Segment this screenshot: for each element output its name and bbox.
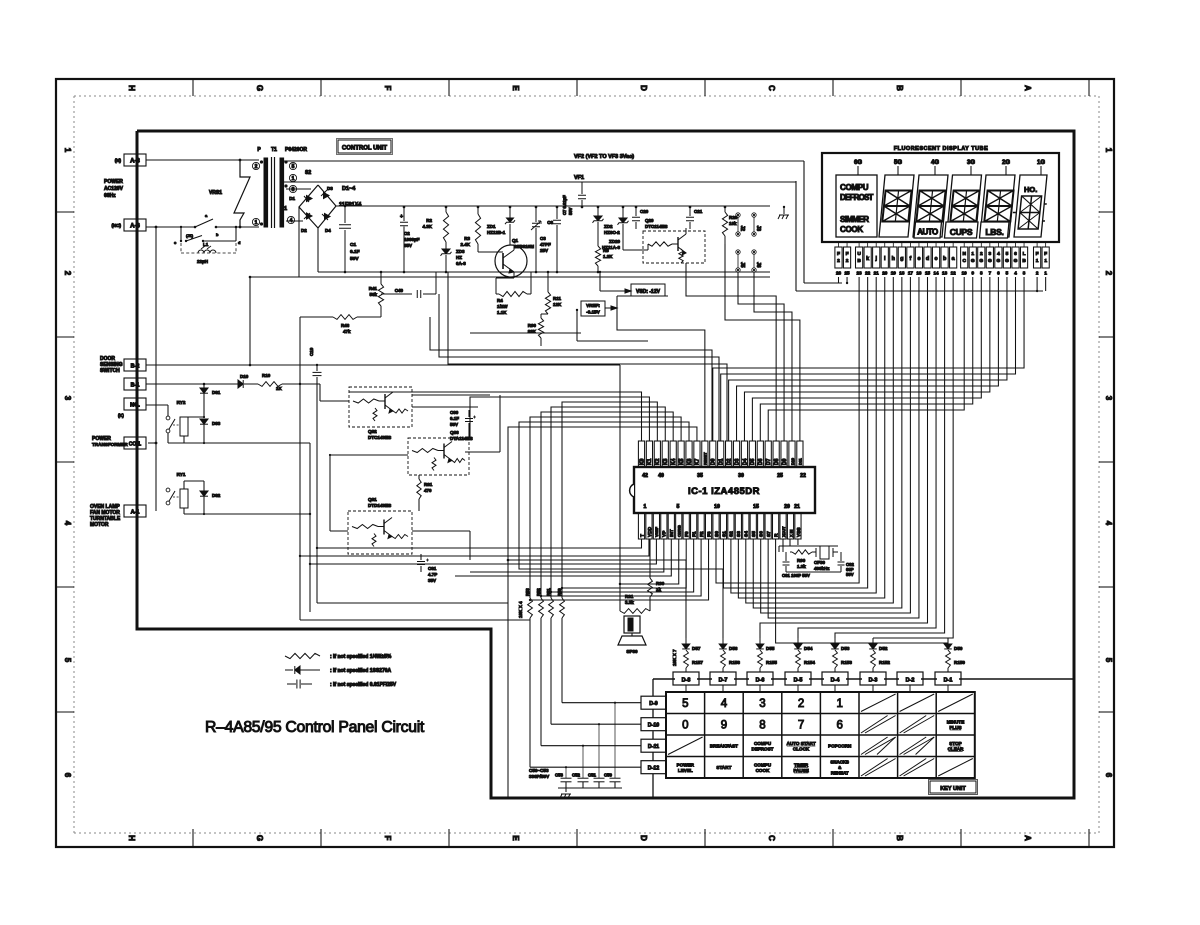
svg-text:20: 20 [882, 271, 888, 276]
svg-text:8: 8 [759, 719, 765, 731]
wire Q1 emitter collector [513, 245, 515, 250]
svg-text:START: START [716, 765, 731, 770]
wire B-2 line [146, 364, 620, 366]
wire R10 to Q82 base [282, 383, 320, 385]
svg-text:60Hz: 60Hz [104, 193, 116, 199]
svg-text:56k: 56k [369, 292, 377, 297]
svg-text:D-4: D-4 [831, 678, 841, 684]
wire VREF arrow line [470, 332, 581, 334]
svg-text:D: D [639, 835, 648, 841]
IC-1 bottom pin VP [661, 513, 667, 539]
svg-text:COMPU: COMPU [754, 762, 772, 767]
diode D10 [238, 380, 243, 388]
svg-text:5: 5 [1104, 658, 1113, 663]
svg-text:5: 5 [1006, 271, 1009, 276]
bridge diode D4 mark [325, 214, 331, 220]
trimmer capacitor C3 47PF 25V [535, 207, 537, 222]
svg-text:SIMMER: SIMMER [840, 215, 869, 224]
connector NO. [124, 398, 146, 410]
svg-text:2: 2 [63, 271, 72, 276]
svg-text:10: 10 [962, 271, 968, 276]
IC-1 bottom pin S0 [713, 513, 719, 539]
svg-text:CON.: CON. [129, 442, 142, 448]
svg-text:TIMER: TIMER [794, 762, 809, 767]
svg-text:22: 22 [800, 473, 806, 479]
svg-text:CONTROL UNIT: CONTROL UNIT [342, 146, 388, 152]
svg-text:25: 25 [844, 271, 850, 276]
svg-text:A: A [1023, 85, 1032, 91]
svg-text:K6: K6 [687, 458, 693, 465]
svg-text:B: B [895, 835, 904, 841]
svg-text:FLUORESCENT DISPLAY TUBE: FLUORESCENT DISPLAY TUBE [894, 146, 989, 152]
svg-text:D1: D1 [719, 458, 725, 465]
svg-text:c: c [935, 256, 938, 262]
svg-text:PLUS: PLUS [949, 725, 961, 730]
svg-text:16: 16 [916, 271, 922, 276]
svg-text:H: H [127, 835, 136, 841]
svg-text:400kHz: 400kHz [814, 566, 830, 571]
svg-text:F2: F2 [699, 531, 705, 537]
svg-text:DTD143ES: DTD143ES [368, 503, 391, 508]
wire A-6 to interlock switch [146, 226, 195, 228]
interlock switch a-b [194, 226, 197, 229]
wire left bus vertical 310 [309, 443, 311, 612]
svg-text:3G: 3G [967, 160, 975, 166]
svg-text:F: F [383, 836, 392, 841]
capacitor C20 [635, 207, 637, 216]
wire IC RESET pin to VREF node [617, 308, 705, 441]
svg-text:22μH: 22μH [197, 259, 208, 264]
svg-text:MINUTE: MINUTE [947, 719, 965, 724]
IC-1 bottom pin VREF [653, 513, 659, 539]
display pin 2 (F1) [1034, 247, 1041, 268]
svg-text:6: 6 [63, 773, 72, 778]
diode D57 [685, 638, 687, 644]
IC-1 top pin K0 [638, 441, 644, 467]
display pin 6 (4G) [995, 247, 1002, 268]
svg-text:ZD1: ZD1 [487, 224, 496, 229]
svg-text:F3: F3 [706, 531, 712, 537]
IC-1 top pin D7 [765, 441, 771, 467]
svg-text:K7: K7 [695, 458, 701, 465]
svg-text:10K X 4: 10K X 4 [518, 601, 523, 618]
svg-text:D11: D11 [799, 458, 803, 465]
svg-text:F: F [1036, 251, 1039, 257]
diode D83 [200, 419, 208, 424]
resistor R10 1K [258, 382, 282, 387]
svg-text:Q1: Q1 [512, 238, 519, 243]
display pin 19 (h) [890, 247, 897, 268]
svg-text:LBS.: LBS. [985, 227, 1003, 237]
wire VF1 rail [283, 181, 796, 183]
key blank diagonals row1 [861, 694, 896, 712]
transformer terminal 3 [289, 185, 296, 192]
svg-text:D2: D2 [301, 228, 307, 233]
display pin 4 (6G) [1012, 247, 1019, 268]
svg-text:1: 1 [1044, 258, 1047, 264]
svg-text:Q82: Q82 [368, 429, 377, 434]
resistor R90 82K [541, 313, 548, 315]
svg-text:HZ6C-2: HZ6C-2 [604, 230, 620, 235]
svg-text:1: 1 [1036, 258, 1039, 264]
svg-text:C40: C40 [395, 288, 404, 293]
display digit 3G segments [950, 191, 979, 222]
IC-1 IZA485DR body [634, 467, 815, 513]
relay RY1 coil [180, 489, 188, 508]
svg-text:C: C [767, 835, 776, 841]
wire bridge left vertex to 0V rail [298, 207, 300, 277]
capacitor C21 [689, 207, 691, 216]
IC-1 top pin D4 [741, 441, 747, 467]
display digit cell 3G outline [947, 175, 982, 237]
display pin 12 (a) [950, 247, 957, 268]
svg-text:CLOCK: CLOCK [793, 746, 810, 751]
svg-text:10k: 10k [729, 221, 737, 226]
svg-text:Q86: Q86 [450, 430, 459, 435]
svg-text:1: 1 [1104, 148, 1113, 153]
svg-text:D8: D8 [774, 458, 780, 465]
connector A-1 [124, 505, 146, 517]
transformer terminal 1 primary [252, 218, 259, 225]
svg-text:g: g [900, 256, 903, 262]
resistor R4 1/2W 1.1K feedback [495, 278, 497, 294]
svg-text:4: 4 [63, 521, 72, 526]
svg-text:R–4A85/95 Control Panel Circui: R–4A85/95 Control Panel Circuit [205, 719, 425, 736]
wires IC lower-left pins going left [317, 539, 642, 548]
resistor R81 470 [418, 475, 420, 479]
wire K1 line [470, 397, 649, 441]
diode D55 [759, 638, 761, 644]
svg-text:G: G [988, 258, 992, 264]
svg-text:3: 3 [1104, 396, 1113, 401]
svg-text:COMPU: COMPU [754, 741, 772, 746]
transformer terminal 2 [252, 162, 259, 169]
svg-text:C1: C1 [350, 242, 356, 248]
svg-text:ZD3: ZD3 [456, 249, 465, 254]
svg-text:2: 2 [980, 251, 983, 257]
svg-text:SNACKS: SNACKS [830, 760, 849, 765]
svg-text:S6: S6 [759, 531, 765, 537]
IC-1 bottom pin F1 [691, 513, 697, 539]
key unit left bus vertical [652, 679, 654, 696]
svg-text:B-1: B-1 [131, 383, 140, 389]
svg-text:COMPU: COMPU [840, 183, 869, 192]
wire B-1 line to D10 [146, 383, 238, 385]
display pin 21 (j) [873, 247, 880, 268]
svg-text:E: E [511, 85, 520, 91]
svg-text:C: C [962, 258, 966, 264]
wire Q86 connections [330, 454, 408, 456]
svg-text:VF2 (VF2 TO VF3 3Vac): VF2 (VF2 TO VF3 3Vac) [574, 154, 634, 160]
svg-text:C6: C6 [547, 220, 553, 225]
key blank diagonals row3 [861, 737, 888, 755]
svg-text:1.1K: 1.1K [497, 310, 507, 315]
svg-text:CUPS: CUPS [950, 227, 973, 237]
svg-text:2G: 2G [1002, 160, 1010, 166]
label box VREF -0.15V [581, 301, 605, 316]
svg-text:9: 9 [721, 719, 727, 731]
bus IC segment pins to display segment pins [716, 277, 859, 583]
connector CON. [124, 437, 146, 449]
svg-text:9: 9 [971, 271, 974, 276]
svg-text:J3: J3 [755, 226, 761, 232]
transformer primary bar [264, 158, 268, 227]
svg-text:POPCORN: POPCORN [828, 744, 852, 749]
IC-1 top pin D5 [749, 441, 755, 467]
resistor R52 10K [539, 598, 544, 618]
svg-text:5: 5 [682, 698, 688, 710]
speaker SP30 [624, 616, 640, 633]
connector box D-2 [897, 672, 923, 685]
wire left bundle vertical to bottom border [507, 560, 509, 798]
capacitor C52 [578, 777, 589, 779]
transformer core [271, 157, 273, 228]
sheet outer border [56, 79, 1114, 847]
svg-text:5: 5 [677, 504, 680, 510]
svg-text:22: 22 [865, 271, 871, 276]
transistor Q82 DTC143ES [349, 387, 412, 427]
IC-1 bottom pin X IN [787, 513, 793, 539]
svg-text:C: C [767, 85, 776, 91]
resistor R11 12K [547, 272, 549, 292]
node bridge output rail [336, 205, 770, 207]
IC-1 bottom pin S5 [750, 513, 756, 539]
wires around RY2 coil [184, 416, 204, 418]
svg-text:G: G [255, 85, 264, 91]
wire left bus vertical 317 from C19 [316, 383, 318, 603]
svg-text:D52: D52 [879, 646, 888, 651]
svg-text:PAUSE: PAUSE [793, 768, 809, 773]
wire K4 line to D-11 row [541, 412, 673, 598]
svg-text:7: 7 [798, 719, 804, 731]
display pin 17 (f) [907, 247, 914, 268]
svg-text:D57: D57 [692, 646, 701, 651]
svg-text:RY2: RY2 [177, 400, 186, 405]
IC-1 bottom pin F3 [705, 513, 711, 539]
svg-text:1: 1 [255, 220, 258, 226]
diode D56 [722, 638, 724, 644]
wire B-2 drop to IC INT area [619, 365, 621, 569]
svg-text:DEFROST: DEFROST [752, 746, 774, 751]
resistor R152 [871, 650, 876, 668]
zener diode ZD2 HZ6C-2 [597, 207, 599, 216]
display pin 7 (3G) [986, 247, 993, 268]
svg-text:D5: D5 [750, 458, 756, 465]
svg-text:1: 1 [644, 504, 647, 510]
svg-text:X IN: X IN [789, 529, 793, 537]
capacitor C51 [594, 777, 605, 779]
svg-text:S4: S4 [744, 531, 750, 537]
svg-text:R153: R153 [841, 660, 852, 665]
svg-text:12: 12 [951, 271, 957, 276]
svg-text:D10: D10 [240, 374, 249, 379]
connector A-6 [124, 219, 146, 231]
svg-text:T1: T1 [271, 147, 277, 153]
svg-text:2SB810M: 2SB810M [514, 244, 534, 249]
svg-text:S2: S2 [305, 170, 311, 176]
control unit border outline [137, 131, 1074, 798]
svg-text:D2: D2 [726, 458, 732, 465]
svg-text:D0: D0 [711, 458, 717, 465]
diode D52 [872, 638, 874, 644]
transistor Q86 DTA114ES [408, 438, 469, 475]
connector box D-12 [641, 761, 666, 774]
display pin 1 (F1) [1042, 247, 1049, 268]
svg-text:F: F [837, 251, 840, 257]
svg-text:1/2W: 1/2W [497, 304, 508, 309]
junction A-6 branch [155, 226, 158, 229]
svg-text:NO.: NO. [130, 403, 140, 409]
svg-text:IC-1 IZA485DR: IC-1 IZA485DR [688, 486, 760, 497]
svg-text:R4: R4 [497, 298, 503, 303]
IC-1 bottom pin F2 [698, 513, 704, 539]
wire left bus vertical 300 [299, 384, 301, 620]
wire VF1 drop to display F1 [795, 181, 797, 291]
svg-text:(N): (N) [115, 158, 122, 163]
svg-text:5: 5 [63, 658, 72, 663]
svg-text:19: 19 [891, 271, 897, 276]
svg-text:330P/50V: 330P/50V [529, 774, 550, 779]
display label LBS. tab [980, 222, 1010, 238]
svg-text:1: 1 [971, 251, 974, 257]
wire secondary 4 to bridge [286, 220, 303, 222]
display pin 14 (c) [932, 247, 939, 268]
svg-text:D-2: D-2 [906, 678, 915, 684]
display pin 25 (F2) [843, 247, 850, 268]
svg-text:L: L [1023, 251, 1026, 257]
svg-text:VRS1: VRS1 [209, 190, 222, 196]
svg-text:G: G [1005, 258, 1009, 264]
capacitor C91 100P 50V [785, 552, 787, 561]
transistor Q1 2SB810M [495, 245, 527, 277]
IC-1 bottom pin VSS [795, 513, 801, 539]
bridge diode D2 mark [307, 213, 313, 219]
bus display grid pins to IC digit pins [713, 277, 1024, 441]
svg-text:18: 18 [899, 271, 905, 276]
svg-text:(NC): (NC) [112, 223, 122, 228]
svg-text:25V: 25V [540, 248, 548, 253]
display pin 3 (LB) [1020, 247, 1027, 268]
svg-text:50V: 50V [568, 207, 573, 215]
bus power section to IC D8-D11 pins [686, 263, 776, 441]
svg-text:h: h [892, 256, 895, 262]
rail 0V [318, 271, 770, 273]
svg-text:2: 2 [837, 258, 840, 264]
svg-text:R53: R53 [525, 588, 530, 596]
transistor Q81 DTD143ES [348, 511, 412, 554]
capacitor C1 0.1F 50V [344, 206, 346, 223]
svg-text:R41: R41 [369, 286, 378, 291]
resistor R157 [684, 650, 689, 668]
svg-text:R52: R52 [536, 588, 541, 596]
svg-text:K4: K4 [671, 458, 677, 465]
svg-text:40: 40 [658, 473, 664, 479]
IC-1 top pin K2 [654, 441, 660, 467]
svg-text:D-6: D-6 [756, 678, 765, 684]
wire CON. line [148, 442, 156, 444]
svg-text:R157: R157 [692, 660, 703, 665]
svg-text:C81: C81 [428, 566, 437, 571]
svg-text:C2: C2 [404, 231, 410, 236]
wires display F1 pins to VF1 [1036, 277, 1038, 291]
svg-text:LEVEL: LEVEL [678, 768, 693, 773]
svg-text:T: T [639, 534, 645, 537]
svg-text:VDD: VDD [647, 526, 653, 537]
svg-text:E: E [511, 835, 520, 841]
svg-text:HZ11A-3: HZ11A-3 [602, 245, 621, 250]
svg-text:42: 42 [642, 473, 648, 479]
svg-text:AUTO: AUTO [917, 228, 938, 237]
resistor R41 56k [380, 272, 382, 284]
svg-text:1.3k: 1.3k [797, 564, 806, 569]
svg-text:R46: R46 [341, 323, 350, 328]
svg-text:BREAKFAST: BREAKFAST [710, 744, 738, 749]
inductor L1 [198, 250, 216, 253]
connector box D-5 [785, 672, 811, 685]
IC-1 bottom pin S3 [735, 513, 741, 539]
sheet inner margin line [74, 96, 1099, 833]
capacitor C6 [556, 207, 558, 219]
svg-text:U: U [857, 251, 861, 257]
svg-text:4: 4 [997, 251, 1000, 257]
svg-text:2: 2 [1036, 271, 1039, 276]
connector box D-3 [860, 672, 886, 685]
svg-text:C3: C3 [540, 236, 546, 241]
capacitor C50 [610, 777, 621, 779]
relay RY1 switch [166, 488, 170, 492]
svg-text:CLEAR: CLEAR [948, 746, 965, 751]
dash link RY2 blade to coil [173, 424, 180, 426]
display pin 15 (d) [924, 247, 931, 268]
resistor R156 [721, 650, 726, 668]
connector box D-6 [747, 672, 773, 685]
svg-text:(J1): (J1) [186, 233, 194, 238]
svg-text:C52: C52 [572, 773, 581, 778]
svg-text:470: 470 [424, 488, 432, 493]
dash link RY1 blade to coil [173, 496, 180, 498]
IC-1 bottom pin S4 [743, 513, 749, 539]
zener diode ZD3 HZ 6A-3 [445, 247, 447, 249]
wire K3 line to D-10 row [551, 407, 665, 598]
display pin 8 (2G) [978, 247, 985, 268]
svg-text:3: 3 [292, 187, 295, 193]
wire INT pin down [455, 539, 671, 576]
resistor R46 47k [333, 315, 357, 320]
svg-text:: If not specified 0.01PF/25V: : If not specified 0.01PF/25V [330, 682, 397, 688]
svg-text:R90: R90 [797, 558, 806, 563]
svg-text:-0.15V: -0.15V [586, 310, 600, 315]
svg-text:P6420OR: P6420OR [285, 147, 307, 153]
svg-text:f: f [910, 256, 912, 262]
svg-text:R156: R156 [729, 660, 740, 665]
IC-1 top pin D0 [710, 441, 716, 467]
capacitor C81 4.7P 35V [420, 554, 422, 560]
svg-text:F: F [1044, 251, 1047, 257]
svg-text:5G: 5G [894, 160, 902, 166]
resistor R3 2.4K [477, 207, 479, 214]
svg-text:8: 8 [980, 271, 983, 276]
svg-text:25: 25 [777, 473, 783, 479]
svg-text:e: e [917, 256, 920, 262]
svg-text:5: 5 [1006, 251, 1009, 257]
svg-text:HO.: HO. [1024, 185, 1037, 194]
connector box D-9 [641, 696, 666, 709]
resistor R50 10K [560, 598, 565, 618]
connector box D-1 [935, 672, 961, 685]
bus power filters to IC digit pins [430, 317, 712, 441]
svg-text:2: 2 [846, 258, 849, 264]
svg-text:VSS: VSS [796, 527, 802, 537]
